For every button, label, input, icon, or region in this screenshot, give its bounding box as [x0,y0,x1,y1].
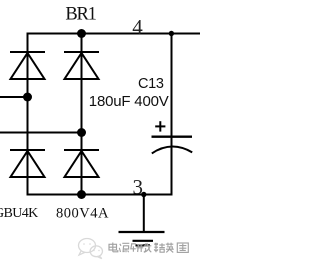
junction bridge top pin [77,29,86,38]
bridge BR1 diode bottom-left [10,150,45,177]
char 精 [154,243,165,252]
bridge BR1 diode top-left [10,52,45,79]
wire AC input 1 [0,96,28,98]
svg-text:180uF 400V: 180uF 400V [89,93,169,110]
char 英 [166,243,174,253]
svg-text:4: 4 [132,15,143,39]
wire AC input 2 [0,132,82,134]
svg-text:C13: C13 [138,76,164,92]
char 圈 [177,243,188,252]
junction bridge AC pin left [23,93,32,102]
ground symbol [119,232,165,245]
char 电 [109,243,118,252]
svg-text:BR1: BR1 [65,5,96,25]
char 研 [131,244,143,252]
svg-text:800V4A: 800V4A [56,205,109,221]
junction bridge bottom pin [77,190,86,199]
wire bottom bus node 3 [27,194,173,196]
wire left column of bridge [27,33,29,196]
watermark text 电源研发精英圈 [109,243,188,253]
svg-text:3: 3 [133,175,144,199]
capacitor C13 plus polarity mark [155,121,165,131]
watermark wechat logo [79,239,103,259]
char 发 [144,243,152,252]
wire right column of bridge [81,34,83,195]
bridge BR1 diode bottom-right [64,150,99,177]
wire capacitor branch [171,34,173,195]
junction node 3 at ground [141,192,146,197]
wire top bus node 4 [27,33,201,35]
svg-text:GBU4K: GBU4K [0,206,38,221]
char 源 [119,243,129,252]
bridge BR1 diode top-right [64,52,99,79]
junction node 4 at capacitor [169,31,174,36]
junction bridge AC pin right [77,128,86,137]
wire ground stem [143,195,145,232]
capacitor C13 symbol [152,137,193,154]
